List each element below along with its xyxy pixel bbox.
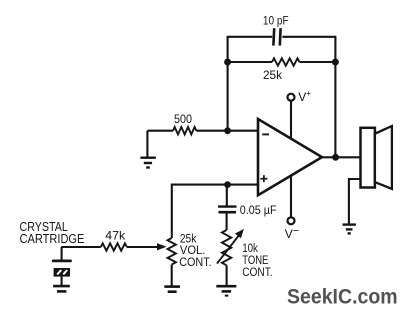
ground at volume pot: [164, 287, 180, 292]
svg-text:−: −: [293, 225, 299, 237]
wire volume pot top lead: [171, 184, 173, 238]
potentiometer 25k VOL: [168, 238, 176, 265]
junction dot feedback right: [332, 59, 339, 66]
wire feedback left vertical: [227, 37, 229, 131]
resistor 500: [173, 127, 196, 134]
wire output: [322, 156, 361, 158]
svg-text:CONT.: CONT.: [242, 265, 272, 279]
op-amp minus sign: [262, 133, 269, 135]
wire 500 ground stem: [146, 131, 148, 158]
wire tone pot bottom lead: [226, 265, 228, 285]
junction dot inverting input: [224, 127, 231, 134]
svg-text:V: V: [285, 227, 293, 241]
wire inverting input left: [147, 130, 173, 132]
wire 10pF branch left: [227, 36, 273, 38]
junction dot noninverting: [224, 181, 231, 188]
crystal cartridge bottom stem: [61, 277, 63, 285]
wire 25k branch left: [228, 61, 272, 63]
crystal cartridge top plate: [53, 259, 70, 262]
svg-text:SeekIC.com: SeekIC.com: [287, 285, 398, 308]
wire inverting input right: [196, 130, 258, 132]
svg-text:+: +: [306, 88, 311, 98]
svg-text:0.05 µF: 0.05 µF: [240, 205, 277, 217]
svg-text:CONT.: CONT.: [179, 255, 211, 269]
speaker cone: [375, 126, 392, 189]
ground at 500 resistor: [140, 158, 155, 168]
ground at tone pot: [216, 286, 236, 295]
ground at cartridge: [53, 286, 70, 291]
crystal cartridge stem: [61, 247, 63, 260]
svg-text:500: 500: [174, 114, 192, 126]
wire noninverting input: [172, 184, 258, 186]
ground at speaker: [343, 225, 356, 234]
terminal V-: [288, 217, 295, 224]
wire speaker lower terminal: [349, 179, 361, 224]
svg-text:CARTRIDGE: CARTRIDGE: [20, 232, 85, 246]
terminal V+: [288, 94, 295, 101]
wire 10pF branch right: [282, 36, 336, 38]
op-amp U1: [258, 119, 322, 195]
capacitor 0.05uF: [218, 207, 237, 213]
capacitor 10pF: [273, 28, 280, 45]
wire V+ stem: [290, 101, 292, 139]
junction dot feedback left: [224, 59, 231, 66]
resistor 47k: [101, 243, 127, 250]
rheostat 10k TONE: [222, 230, 231, 265]
svg-text:10 pF: 10 pF: [263, 16, 289, 28]
svg-text:47k: 47k: [105, 228, 126, 242]
wire feedback right vertical: [334, 37, 336, 158]
speaker driver box: [361, 128, 375, 188]
resistor 25k feedback: [272, 58, 300, 65]
svg-text:V: V: [298, 90, 306, 104]
wire 47k left: [61, 246, 101, 248]
op-amp plus sign: [260, 175, 267, 182]
svg-text:25k: 25k: [263, 68, 283, 82]
wire wiper arrow: [127, 243, 167, 250]
crystal cartridge element: [54, 268, 70, 277]
wire 0.05uF stem: [226, 185, 228, 206]
wire tone pot top lead: [226, 212, 228, 230]
junction dot output node: [332, 154, 339, 161]
wire V- stem: [290, 176, 292, 218]
rheostat arrow: [217, 229, 244, 264]
wire 25k branch right: [300, 61, 336, 63]
wire volume pot bottom lead: [171, 265, 173, 286]
